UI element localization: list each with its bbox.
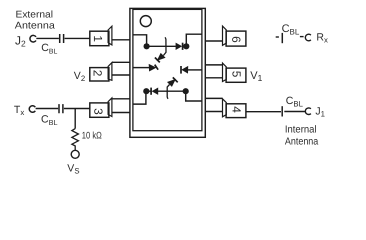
node A junction dot [144, 43, 150, 49]
svg-text:Antenna: Antenna [285, 136, 319, 147]
svg-text:J2: J2 [15, 33, 26, 48]
wire top rail A-B [147, 45, 187, 47]
svg-text:CBL: CBL [286, 95, 304, 109]
pin 2 box [90, 68, 109, 81]
svg-text:External: External [16, 9, 54, 20]
IC package outer body [130, 8, 205, 137]
wire pin1 flag to package [112, 39, 130, 41]
wire capacitor to pin1 box [65, 37, 90, 39]
diode D4 triangle [152, 88, 159, 95]
svg-text:CBL: CBL [282, 23, 300, 36]
terminal Vs circle [71, 150, 79, 158]
wire capacitor to terminal J1 [284, 111, 305, 113]
diode D1 triangle [176, 43, 183, 50]
pin 2 wide lead [112, 62, 131, 75]
diode D3lr anode line and stub with curl [167, 85, 169, 99]
pin 3 box [90, 103, 109, 117]
terminal Rx circle [305, 34, 311, 41]
svg-text:CBL: CBL [41, 42, 57, 55]
svg-text:V1: V1 [250, 70, 262, 83]
pin 1 index circle [140, 16, 151, 27]
wire stub Rx right [300, 36, 304, 38]
capacitor C_BL (J1) plate [281, 106, 283, 116]
pin 2 number [94, 70, 102, 75]
wire capacitor to pin3 box with junction [64, 108, 90, 110]
diode D2ul triangle (angled upper-left) [157, 53, 166, 61]
pin 5 wide lead [205, 65, 222, 78]
resistor R1 10k zigzag [72, 129, 79, 151]
svg-text:Internal: Internal [285, 125, 317, 136]
capacitor C_BL (J2) plates [60, 34, 64, 43]
svg-text:VS: VS [67, 163, 79, 175]
diode D3 bar [173, 77, 178, 82]
node B junction dot [183, 43, 189, 49]
pin 5 number [232, 71, 240, 77]
node D junction dot [183, 88, 189, 94]
diode D1 top cathode bar [182, 43, 184, 50]
svg-text:Rx: Rx [316, 32, 328, 45]
diode D5 bar [180, 66, 182, 74]
pin 4 box [226, 104, 246, 118]
wire Tx to capacitor [36, 108, 59, 110]
capacitor C_BL (Rx) plate [281, 33, 283, 43]
svg-text:V2: V2 [74, 70, 85, 83]
svg-text:J1: J1 [315, 106, 325, 119]
diode D4 bottom cathode bar [150, 88, 152, 95]
wire bottom rail C-D [146, 90, 185, 92]
svg-text:CBL: CBL [41, 114, 58, 127]
svg-text:Tx: Tx [14, 104, 24, 117]
pin 3 flag [108, 98, 112, 117]
pin 4 number [233, 107, 241, 113]
wire pin6 flag to package [205, 40, 223, 42]
pin 6 number [232, 37, 240, 42]
pin 6 box [226, 31, 246, 46]
wire J2 to capacitor [36, 37, 59, 39]
wire stub Rx left [276, 36, 279, 38]
wire pin5 bond inside [187, 69, 202, 71]
diode D2 triangle (from pin2) [149, 64, 157, 72]
pin 4 wide lead [205, 98, 222, 111]
wire junction down to resistor [74, 109, 76, 129]
wire pin2 bond inside [133, 67, 149, 69]
wire pin3 bond inside [133, 91, 146, 104]
wire pin4 bond inside [186, 91, 202, 101]
node C junction dot [143, 88, 149, 94]
wire pin6 bond inside [186, 34, 201, 46]
diode D2ul anode line and stub with curl [163, 37, 166, 55]
terminal J2 circle [30, 35, 36, 42]
pin 2 flag [108, 63, 112, 81]
pin 1 box [90, 31, 109, 46]
wire pin1 bond inside [133, 35, 146, 47]
pin 6 flag [223, 26, 227, 45]
svg-text:Antenna: Antenna [15, 21, 56, 32]
pin 4 flag [223, 99, 227, 117]
IC package inner body [133, 9, 202, 130]
diode D2 bar [155, 65, 158, 70]
pin 5 flag [223, 63, 227, 81]
pin 1 flag [108, 26, 112, 45]
diode D2ul bar [155, 58, 160, 63]
pin 5 box [226, 68, 246, 82]
terminal Tx circle [29, 106, 35, 113]
svg-text:10 kΩ: 10 kΩ [82, 131, 102, 142]
pin 3 wide lead [112, 99, 131, 113]
diode D5 triangle (from pin5) [181, 66, 188, 74]
terminal J1 circle [305, 108, 311, 115]
wire pin4 to capacitor J1 [246, 111, 281, 113]
diode D3lr triangle (angled lower-right) [167, 79, 176, 87]
capacitor C_BL (Tx) plates [59, 104, 63, 113]
pin 1 number [94, 36, 102, 41]
pin 3 number [94, 109, 102, 115]
